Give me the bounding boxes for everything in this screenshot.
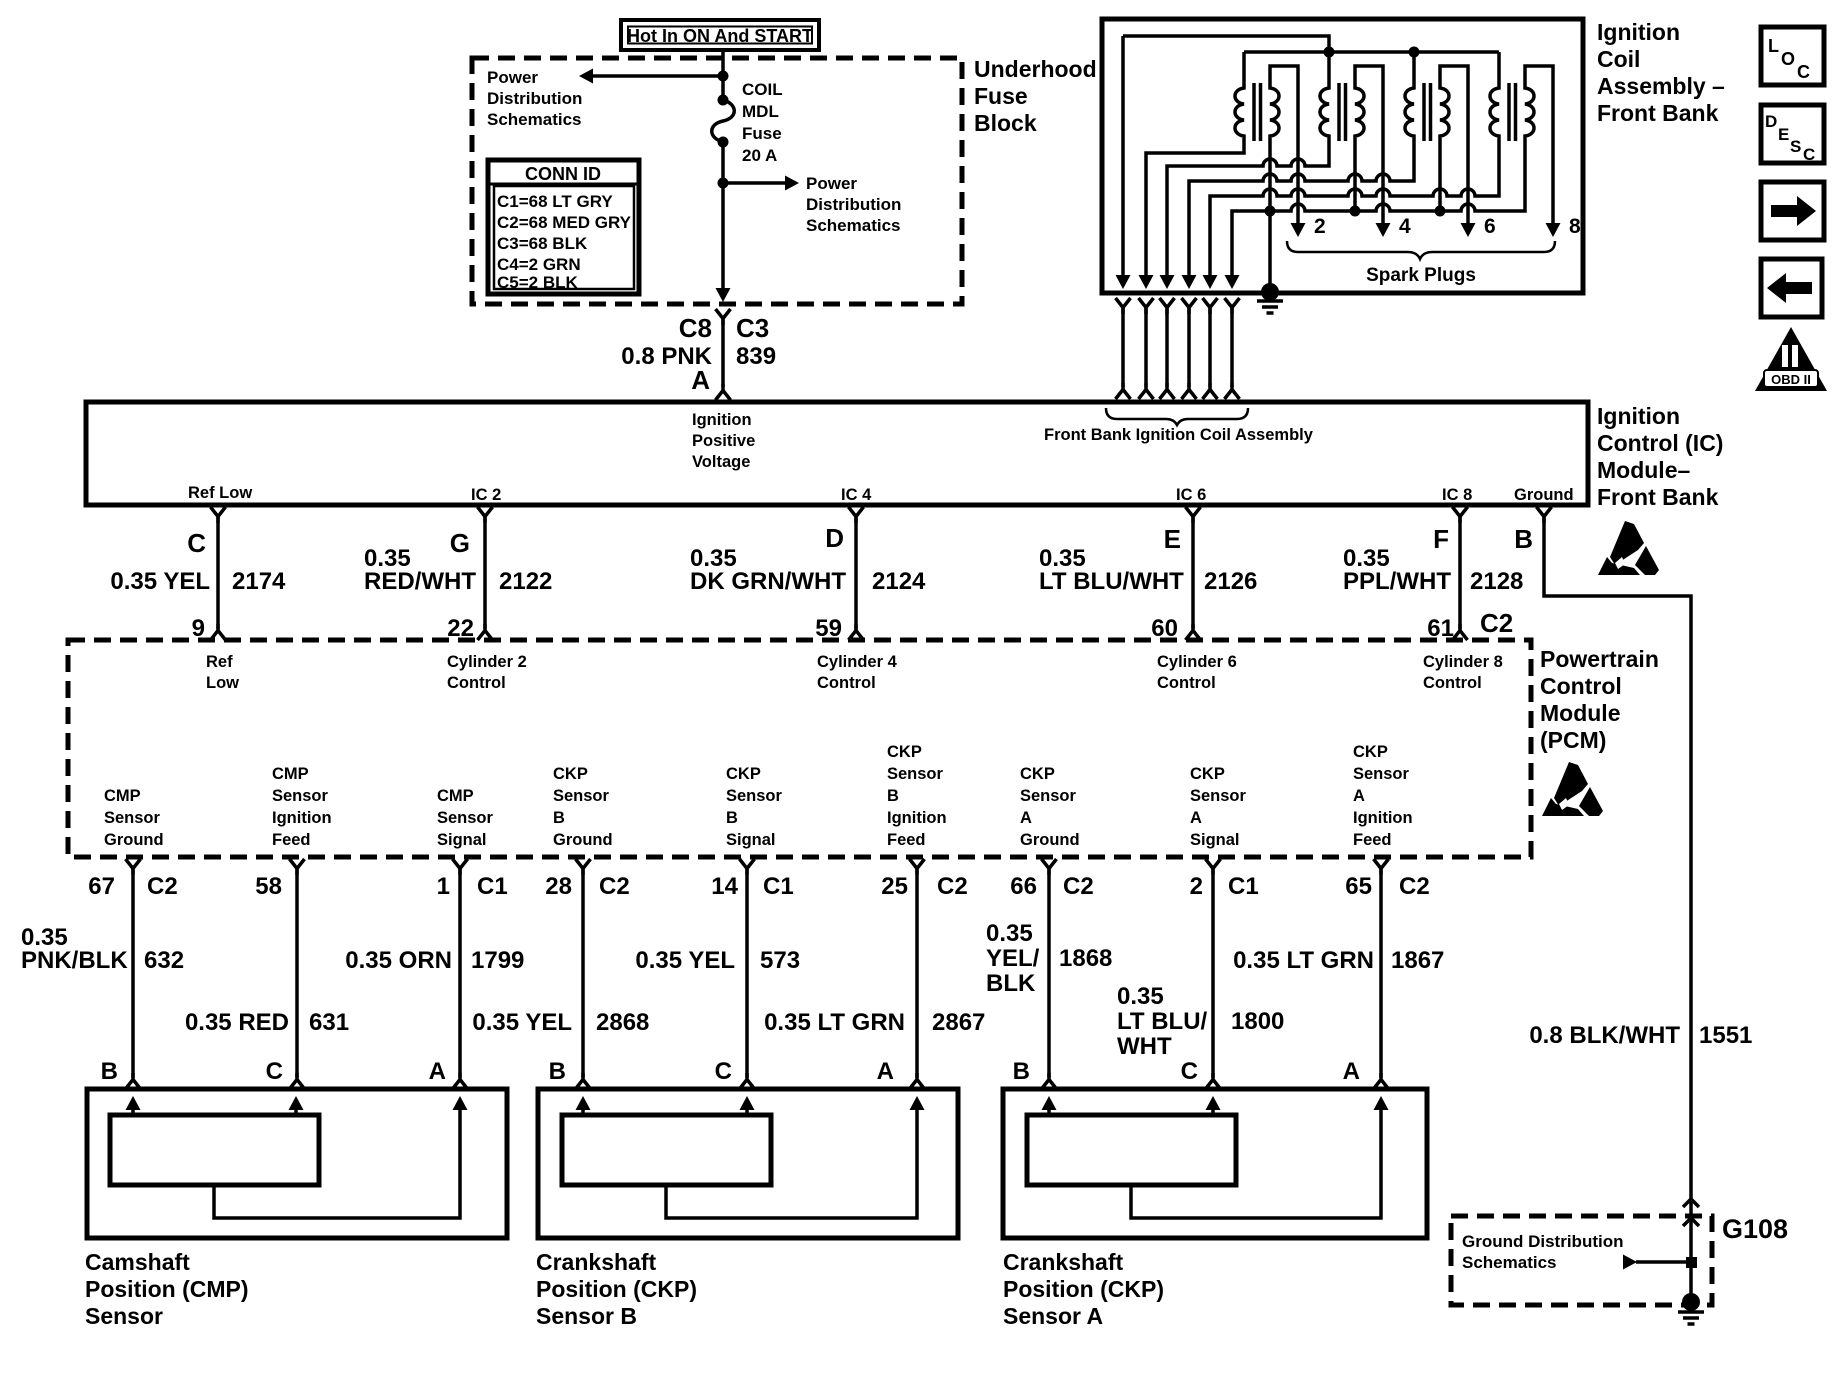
svg-text:A: A (1020, 809, 1032, 827)
svg-text:2126: 2126 (1204, 568, 1257, 595)
svg-text:28: 28 (545, 873, 572, 900)
svg-text:C2: C2 (1063, 873, 1094, 900)
ESD symbol at IC module (1598, 521, 1659, 575)
svg-text:G108: G108 (1722, 1214, 1788, 1244)
svg-text:20 A: 20 A (742, 146, 777, 165)
svg-text:YEL/: YEL/ (986, 945, 1040, 972)
CONN ID table (488, 160, 639, 294)
svg-text:0.35 LT GRN: 0.35 LT GRN (1233, 947, 1374, 974)
svg-text:Assembly –: Assembly – (1597, 73, 1725, 99)
svg-text:C: C (187, 528, 206, 558)
svg-text:F: F (1433, 524, 1449, 554)
Ignition Coil Assembly - Front Bank box (1102, 19, 1583, 293)
svg-text:CMP: CMP (104, 787, 141, 805)
svg-text:573: 573 (760, 947, 800, 974)
svg-text:IC 4: IC 4 (841, 486, 872, 504)
svg-text:CONN ID: CONN ID (525, 164, 601, 184)
coil assembly exit wire 5 arrow (1203, 275, 1218, 289)
Underhood Fuse Block dashed box (472, 58, 962, 304)
svg-text:C2: C2 (599, 873, 630, 900)
svg-text:C: C (1803, 145, 1815, 164)
svg-text:C: C (1797, 62, 1810, 82)
svg-text:4: 4 (1399, 215, 1411, 238)
svg-text:631: 631 (309, 1009, 349, 1036)
terminal D / wire 2124 to PCM pin 59 (690, 507, 926, 642)
coil assembly exit wire 4 arrow (1182, 275, 1197, 289)
svg-text:0.35: 0.35 (1117, 983, 1164, 1010)
svg-text:65: 65 (1345, 873, 1372, 900)
svg-text:6: 6 (1484, 215, 1496, 238)
svg-text:Ignition: Ignition (1353, 809, 1413, 827)
svg-text:CKP: CKP (1190, 765, 1225, 783)
svg-text:Sensor: Sensor (1353, 765, 1410, 783)
coil assembly exit wire 1 (1121, 36, 1125, 276)
svg-text:Crankshaft: Crankshaft (536, 1249, 656, 1275)
wire: top feed rail 1 (1123, 36, 1329, 52)
svg-text:Sensor: Sensor (553, 787, 610, 805)
svg-text:CMP: CMP (272, 765, 309, 783)
svg-text:Front Bank: Front Bank (1597, 484, 1719, 510)
svg-text:Ignition: Ignition (692, 411, 752, 429)
svg-text:B: B (726, 809, 738, 827)
svg-text:2122: 2122 (499, 568, 552, 595)
svg-text:Module–: Module– (1597, 457, 1690, 483)
svg-text:Spark Plugs: Spark Plugs (1366, 265, 1476, 286)
terminal G / wire 2122 to PCM pin 22 (364, 507, 552, 642)
svg-text:Positive: Positive (692, 432, 755, 450)
svg-text:IC 8: IC 8 (1442, 486, 1472, 504)
svg-text:(PCM): (PCM) (1540, 727, 1606, 753)
svg-text:Coil: Coil (1597, 46, 1640, 72)
Ignition Control (IC) Module - Front Bank box (86, 402, 1588, 505)
connector chevrons on ground wire at G108 (1683, 1199, 1699, 1207)
svg-text:0.35 ORN: 0.35 ORN (345, 947, 452, 974)
terminal E / wire 2126 to PCM pin 60 (1039, 507, 1257, 642)
wire: secondary common / ground bus to exit 6 (hops at plug lines) (1232, 142, 1525, 276)
svg-text:839: 839 (736, 343, 776, 370)
svg-text:A: A (1343, 1058, 1360, 1085)
svg-text:B: B (1013, 1058, 1030, 1085)
svg-text:Distribution: Distribution (487, 89, 582, 108)
PCM pin 67 C2 / wire 632 to CMP sensor B (21, 859, 184, 1089)
wire exit arrow at fuse block bottom (716, 288, 731, 302)
svg-text:Module: Module (1540, 700, 1621, 726)
svg-text:Position (CMP): Position (CMP) (85, 1276, 249, 1302)
svg-text:Sensor: Sensor (1020, 787, 1077, 805)
svg-text:Position (CKP): Position (CKP) (1003, 1276, 1164, 1302)
svg-text:Camshaft: Camshaft (85, 1249, 190, 1275)
Crankshaft Position (CKP) Sensor B box (538, 1089, 958, 1238)
spark plugs brace (1287, 241, 1555, 259)
svg-text:0.35 YEL: 0.35 YEL (110, 568, 210, 595)
svg-text:Cylinder 6: Cylinder 6 (1157, 653, 1237, 671)
ignition coil transformer T4 (1490, 52, 1561, 237)
svg-text:Ref: Ref (206, 653, 233, 671)
svg-text:L: L (1768, 36, 1779, 56)
svg-text:DK GRN/WHT: DK GRN/WHT (690, 568, 846, 595)
svg-text:0.35 LT GRN: 0.35 LT GRN (764, 1009, 905, 1036)
svg-text:Schematics: Schematics (487, 110, 582, 129)
PCM pin 65 C2 / wire 1867 to CKP A sensor A (1233, 859, 1444, 1089)
LOC icon (1761, 27, 1824, 85)
svg-text:2867: 2867 (932, 1009, 985, 1036)
svg-text:IC 2: IC 2 (471, 486, 501, 504)
svg-text:2174: 2174 (232, 568, 286, 595)
svg-text:Ground: Ground (1020, 831, 1080, 849)
svg-text:C2: C2 (1480, 608, 1513, 638)
svg-text:COIL: COIL (742, 80, 783, 99)
svg-text:A: A (429, 1058, 446, 1085)
svg-text:Control: Control (1423, 674, 1482, 692)
node: T3 secondary to ground bus (1435, 206, 1446, 217)
svg-text:Ground: Ground (104, 831, 164, 849)
svg-text:67: 67 (88, 873, 115, 900)
svg-text:2868: 2868 (596, 1009, 649, 1036)
ignition coil transformer T2 (1320, 52, 1391, 237)
svg-text:2: 2 (1190, 873, 1203, 900)
svg-text:D: D (1765, 112, 1777, 131)
svg-text:C3=68 BLK: C3=68 BLK (497, 234, 588, 253)
terminal B ground wire (1514, 507, 1691, 1300)
svg-text:1551: 1551 (1699, 1022, 1752, 1049)
svg-text:C3: C3 (736, 313, 769, 343)
node on rail 2 at T3 (1409, 47, 1420, 58)
svg-text:2124: 2124 (872, 568, 926, 595)
svg-text:Ignition: Ignition (1597, 403, 1680, 429)
svg-text:B: B (1514, 524, 1533, 554)
svg-text:8: 8 (1569, 215, 1581, 238)
svg-text:C2: C2 (937, 873, 968, 900)
svg-text:A: A (691, 365, 710, 395)
wire: T3 secondary down to bus (1438, 142, 1442, 211)
svg-text:Ground Distribution: Ground Distribution (1462, 1232, 1623, 1251)
svg-text:0.35 YEL: 0.35 YEL (472, 1009, 572, 1036)
svg-text:Fuse: Fuse (742, 124, 782, 143)
Crankshaft Position (CKP) Sensor A box (1003, 1089, 1427, 1238)
svg-text:2: 2 (1314, 215, 1326, 238)
svg-text:Block: Block (974, 110, 1037, 136)
svg-text:Signal: Signal (726, 831, 776, 849)
svg-text:Control: Control (447, 674, 506, 692)
svg-text:PPL/WHT: PPL/WHT (1343, 568, 1451, 595)
Ground Distribution dashed box (1451, 1216, 1712, 1305)
svg-text:A: A (1353, 787, 1365, 805)
svg-text:IC 6: IC 6 (1176, 486, 1206, 504)
back arrow icon (1761, 259, 1822, 317)
svg-text:C: C (1181, 1058, 1198, 1085)
svg-text:Position (CKP): Position (CKP) (536, 1276, 697, 1302)
svg-text:Schematics: Schematics (806, 216, 901, 235)
node: T2 secondary to ground bus (1350, 206, 1361, 217)
svg-text:1799: 1799 (471, 947, 524, 974)
Hot In ON And START box (621, 20, 819, 50)
svg-text:Ignition: Ignition (272, 809, 332, 827)
svg-text:CKP: CKP (726, 765, 761, 783)
svg-text:D: D (825, 523, 844, 553)
svg-text:C2=68 MED GRY: C2=68 MED GRY (497, 213, 632, 232)
svg-text:G: G (450, 528, 470, 558)
svg-text:Sensor: Sensor (272, 787, 329, 805)
wire arrow to Power Distribution Schematics (right) (723, 181, 786, 185)
brace Front Bank Ignition Coil Assembly (1106, 408, 1248, 425)
svg-text:1867: 1867 (1391, 947, 1444, 974)
svg-text:E: E (1778, 125, 1789, 144)
svg-text:B: B (553, 809, 565, 827)
connector forks below coil assembly and wires to IC module (1116, 298, 1240, 399)
svg-text:C: C (715, 1058, 732, 1085)
wire: T2 primary bottom to exit 3 (hops at crossings) (1167, 142, 1329, 276)
wire: primary feed rail 2 (1244, 50, 1499, 54)
svg-text:CKP: CKP (887, 743, 922, 761)
svg-text:Signal: Signal (1190, 831, 1240, 849)
ground symbol inside coil assembly (1261, 283, 1279, 301)
svg-text:WHT: WHT (1117, 1033, 1172, 1060)
svg-text:Feed: Feed (1353, 831, 1392, 849)
svg-text:Cylinder 8: Cylinder 8 (1423, 653, 1503, 671)
svg-text:RED/WHT: RED/WHT (364, 568, 476, 595)
svg-text:Ground: Ground (553, 831, 613, 849)
terminal F / wire 2128 to PCM pin 61 (1343, 507, 1523, 642)
svg-text:Cylinder 4: Cylinder 4 (817, 653, 898, 671)
svg-text:Control (IC): Control (IC) (1597, 430, 1723, 456)
PCM pin 28 C2 / wire 2868 to CKP B sensor B (472, 859, 649, 1089)
svg-text:O: O (1781, 49, 1795, 69)
svg-text:C1=68 LT GRY: C1=68 LT GRY (497, 192, 613, 211)
svg-text:Signal: Signal (437, 831, 487, 849)
svg-text:MDL: MDL (742, 102, 779, 121)
svg-text:Sensor: Sensor (437, 809, 494, 827)
svg-text:632: 632 (144, 947, 184, 974)
wire 0.8 PNK 839 (721, 318, 725, 387)
svg-text:Sensor: Sensor (887, 765, 944, 783)
svg-text:CKP: CKP (1020, 765, 1055, 783)
svg-text:Ref Low: Ref Low (188, 484, 252, 502)
svg-text:Ground: Ground (1514, 486, 1574, 504)
svg-text:C2: C2 (147, 873, 178, 900)
svg-text:B: B (887, 787, 899, 805)
svg-text:Sensor: Sensor (726, 787, 783, 805)
svg-text:58: 58 (255, 873, 282, 900)
node on rail 2 at T2 (1324, 47, 1335, 58)
svg-text:C5=2 BLK: C5=2 BLK (497, 273, 578, 292)
svg-text:Sensor: Sensor (1190, 787, 1247, 805)
svg-text:25: 25 (881, 873, 908, 900)
wire arrow to Power Distribution Schematics (left) (592, 74, 723, 78)
svg-text:Feed: Feed (887, 831, 926, 849)
svg-text:Front Bank: Front Bank (1597, 100, 1719, 126)
PCM pin 2 C1 / wire 1800 to CKP A sensor C (1117, 859, 1284, 1089)
svg-text:C1: C1 (477, 873, 508, 900)
svg-text:LT BLU/: LT BLU/ (1117, 1008, 1208, 1035)
svg-text:A: A (877, 1058, 894, 1085)
PCM pin 58 / wire 631 to CMP sensor C (185, 859, 349, 1089)
svg-text:C2: C2 (1399, 873, 1430, 900)
svg-text:0.35: 0.35 (986, 920, 1033, 947)
svg-text:Power: Power (487, 68, 538, 87)
svg-text:Distribution: Distribution (806, 195, 901, 214)
svg-text:14: 14 (711, 873, 738, 900)
ignition coil transformer T3 (1405, 52, 1476, 237)
svg-text:B: B (549, 1058, 566, 1085)
svg-text:Ignition: Ignition (1597, 19, 1680, 45)
svg-text:Powertrain: Powertrain (1540, 646, 1659, 672)
wire from Hot In box into fuse block (721, 50, 725, 99)
svg-text:CKP: CKP (1353, 743, 1388, 761)
svg-text:OBD II: OBD II (1771, 372, 1811, 387)
PCM pin 14 C1 / wire 573 to CKP B sensor C (635, 859, 800, 1089)
PCM pin 66 C2 / wire 1868 to CKP A sensor B (986, 859, 1112, 1089)
svg-text:C: C (266, 1058, 283, 1085)
svg-text:Sensor: Sensor (85, 1303, 163, 1329)
coil assembly exit wire 3 arrow (1160, 275, 1175, 289)
svg-text:1868: 1868 (1059, 945, 1112, 972)
svg-text:S: S (1790, 137, 1801, 156)
OBD II icon (1755, 327, 1827, 391)
coil assembly exit wire 2 arrow (1139, 275, 1154, 289)
svg-text:Low: Low (206, 674, 239, 692)
node: power distribution branch (718, 71, 729, 82)
svg-text:A: A (1190, 809, 1202, 827)
svg-text:LT BLU/WHT: LT BLU/WHT (1039, 568, 1184, 595)
svg-text:Sensor B: Sensor B (536, 1303, 637, 1329)
svg-text:C8: C8 (679, 313, 712, 343)
wire: T2 secondary down to bus (1353, 142, 1357, 211)
svg-text:Front Bank Ignition Coil Assem: Front Bank Ignition Coil Assembly (1044, 426, 1314, 444)
Powertrain Control Module (PCM) dashed box (68, 640, 1531, 857)
connector C8/C3 (716, 309, 731, 325)
svg-text:Ignition: Ignition (887, 809, 947, 827)
wire: T3 primary bottom to exit 4 (hops at crossings) (1189, 142, 1414, 276)
svg-text:Control: Control (1540, 673, 1622, 699)
svg-text:CKP: CKP (553, 765, 588, 783)
PCM pin 25 C2 / wire 2867 to CKP B sensor A (764, 859, 985, 1089)
svg-text:2128: 2128 (1470, 568, 1523, 595)
wire: T4 primary bottom to exit 5 (hops at crossings) (1210, 142, 1499, 276)
svg-text:Power: Power (806, 174, 857, 193)
svg-text:66: 66 (1010, 873, 1037, 900)
svg-text:Cylinder 2: Cylinder 2 (447, 653, 527, 671)
svg-text:Control: Control (817, 674, 876, 692)
node: T1 secondary to ground bus (1265, 206, 1276, 217)
svg-text:C4=2 GRN: C4=2 GRN (497, 255, 581, 274)
svg-text:Underhood: Underhood (974, 56, 1097, 82)
svg-text:C1: C1 (763, 873, 794, 900)
svg-text:1800: 1800 (1231, 1008, 1284, 1035)
svg-text:Sensor: Sensor (104, 809, 161, 827)
svg-text:0.35 YEL: 0.35 YEL (635, 947, 735, 974)
wire: T1 secondary down to chassis ground (1268, 142, 1272, 293)
svg-text:Control: Control (1157, 674, 1216, 692)
node: branch to power distribution (right) (718, 178, 729, 189)
svg-text:E: E (1164, 524, 1181, 554)
fuse COIL MDL 20 A (712, 95, 735, 148)
terminal C / wire 2174 to PCM pin 9 (110, 507, 286, 642)
svg-text:Feed: Feed (272, 831, 311, 849)
Camshaft Position (CMP) Sensor box (87, 1089, 507, 1238)
wire below fuse (721, 142, 725, 295)
ground G108 symbol (1682, 1293, 1700, 1311)
wire to ground distribution arrow (1636, 1260, 1691, 1264)
wire: T1 primary bottom to exit 2 (1146, 142, 1244, 276)
ignition coil transformer T1 (1235, 52, 1306, 237)
svg-text:PNK/BLK: PNK/BLK (21, 947, 128, 974)
svg-text:Voltage: Voltage (692, 453, 750, 471)
ESD symbol at PCM (1542, 762, 1603, 816)
svg-text:0.35 RED: 0.35 RED (185, 1009, 289, 1036)
svg-text:B: B (101, 1058, 118, 1085)
svg-text:BLK: BLK (986, 970, 1036, 997)
svg-text:Hot In ON And START: Hot In ON And START (627, 26, 813, 46)
svg-text:C1: C1 (1228, 873, 1259, 900)
svg-text:Schematics: Schematics (1462, 1253, 1557, 1272)
svg-text:CMP: CMP (437, 787, 474, 805)
DESC icon (1761, 105, 1824, 164)
forward arrow icon (1761, 182, 1824, 240)
svg-text:Fuse: Fuse (974, 83, 1028, 109)
svg-text:1: 1 (437, 873, 450, 900)
coil assembly exit wire 6 arrow (1225, 275, 1240, 289)
svg-text:0.8 BLK/WHT: 0.8 BLK/WHT (1529, 1022, 1680, 1049)
PCM pin 1 C1 / wire 1799 to CMP sensor A (345, 859, 524, 1089)
svg-text:Sensor A: Sensor A (1003, 1303, 1103, 1329)
svg-text:Crankshaft: Crankshaft (1003, 1249, 1123, 1275)
